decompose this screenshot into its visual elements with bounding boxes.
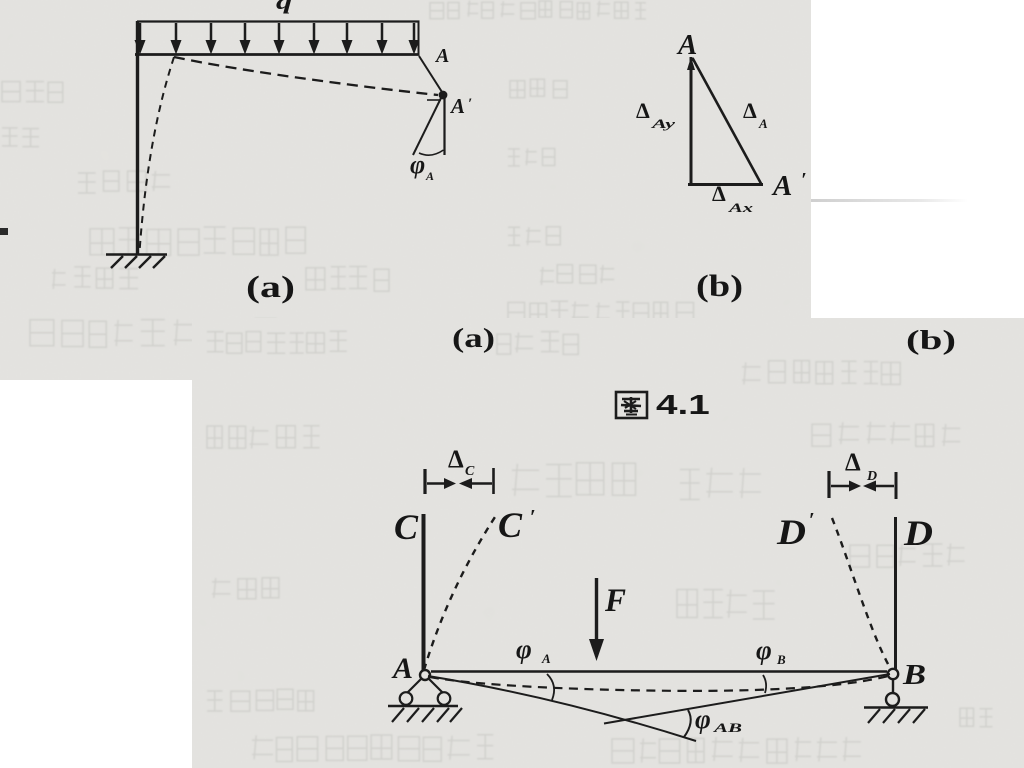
svg-text:′: ′ [809,508,815,532]
svg-text:Δ: Δ [448,446,464,473]
svg-text:φ: φ [756,635,772,665]
svg-text:Ax: Ax [727,200,753,215]
svg-text:AB: AB [712,720,742,735]
svg-text:4.1: 4.1 [656,389,710,421]
svg-text:′: ′ [468,96,472,112]
svg-text:φ: φ [516,634,532,664]
svg-text:A: A [425,169,434,183]
svg-text:(b): (b) [696,268,743,303]
svg-text:C: C [394,507,419,547]
svg-text:A: A [541,651,551,666]
svg-text:′: ′ [801,169,807,191]
svg-text:A: A [771,170,792,202]
svg-text:A: A [676,29,697,61]
svg-text:Δ: Δ [712,181,726,206]
svg-text:F: F [604,583,626,619]
svg-text:A: A [391,652,413,685]
svg-text:D: D [866,469,877,484]
svg-text:φ: φ [695,704,711,734]
svg-text:Δ: Δ [845,449,861,476]
svg-text:D: D [776,512,806,552]
svg-text:Ay: Ay [650,116,675,131]
svg-text:Δ: Δ [636,98,650,123]
svg-text:C: C [465,464,475,479]
svg-text:C: C [498,505,523,545]
svg-text:′: ′ [530,505,536,529]
svg-text:φ: φ [410,150,425,179]
svg-text:q: q [276,0,292,14]
svg-text:A: A [449,94,465,118]
svg-text:A: A [758,116,768,131]
svg-text:Δ: Δ [743,98,757,123]
svg-text:A: A [434,45,449,67]
svg-text:B: B [776,652,786,667]
svg-text:B: B [902,659,926,691]
svg-text:(a): (a) [246,269,295,304]
svg-text:(b): (b) [906,325,956,355]
svg-text:D: D [903,513,933,553]
svg-text:(a): (a) [452,323,495,353]
